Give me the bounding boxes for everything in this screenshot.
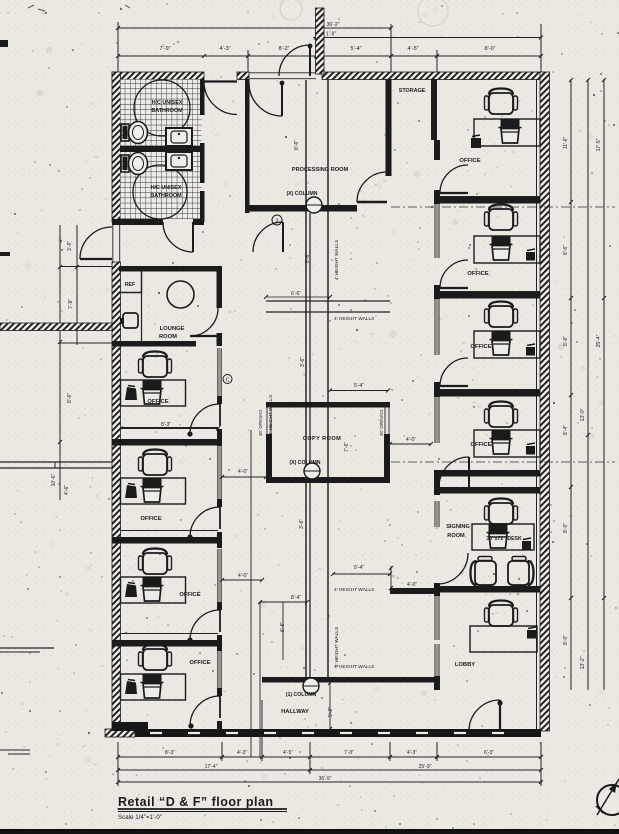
toilet 2 bowl xyxy=(129,153,148,175)
exterior top wall hatched (left of bathroom door) xyxy=(112,72,204,80)
svg-text:8’-6”: 8’-6” xyxy=(305,253,311,263)
right wall boundary office2/office3 xyxy=(437,292,540,299)
svg-text:4’-3”: 4’-3” xyxy=(407,750,417,756)
svg-text:7’-9”: 7’-9” xyxy=(159,46,170,52)
svg-text:4’-3”: 4’-3” xyxy=(219,46,230,52)
bathroom right wall upper xyxy=(200,79,205,115)
svg-text:8’-0”: 8’-0” xyxy=(484,46,495,52)
lounge sink xyxy=(123,313,138,328)
right-column left wall frame y204 xyxy=(435,204,439,258)
hallway dim line vertical x330 xyxy=(329,683,331,729)
right office4 desk computer xyxy=(492,430,511,438)
right office4 desk xyxy=(474,430,540,457)
right office1 chair xyxy=(485,89,518,115)
right office3 desk computer xyxy=(492,331,511,339)
right office3 desk xyxy=(474,331,540,358)
storage wall hatch stub xyxy=(434,140,440,153)
svg-text:OFFICE: OFFICE xyxy=(140,516,161,522)
vestibule right wall (shared with processing) xyxy=(245,79,250,97)
office4 chair xyxy=(139,645,172,671)
svg-text:BATHROOM: BATHROOM xyxy=(150,193,182,199)
signing room door leaf xyxy=(468,457,470,487)
svg-text:5’-4”: 5’-4” xyxy=(354,383,364,389)
svg-text:OFFICE: OFFICE xyxy=(189,660,210,666)
svg-text:ROOM: ROOM xyxy=(159,334,177,340)
right wall thin face line office2/office3 xyxy=(437,291,540,293)
signing room desk phone xyxy=(522,541,531,550)
scan smudge circle top xyxy=(280,0,302,20)
north exterior door arc xyxy=(279,45,310,76)
right office3 door arc xyxy=(440,358,468,386)
svg-text:LOBBY: LOBBY xyxy=(455,662,475,668)
neighbour wall tick marks bottom left xyxy=(0,749,30,751)
dim extension x437 xyxy=(436,50,438,79)
right office3 chair xyxy=(485,302,518,328)
lobby desk phone xyxy=(527,630,536,639)
left-column right wall block y635 xyxy=(217,635,222,651)
office4 door leaf xyxy=(219,696,221,718)
right dim line x588 xyxy=(587,79,589,690)
dim extension x248 xyxy=(247,50,249,72)
lounge bottom wall xyxy=(112,341,196,347)
svg-text:6’-6”: 6’-6” xyxy=(291,291,301,297)
right dim line x604 xyxy=(603,79,605,690)
svg-text:Scale 1/4”=1’-0”: Scale 1/4”=1’-0” xyxy=(118,814,162,821)
exterior right wall hatched xyxy=(540,72,550,731)
right office2 door leaf xyxy=(440,287,468,289)
copy room top wall xyxy=(266,402,390,408)
office2 desk phone xyxy=(125,485,137,498)
svg-text:25’-9”: 25’-9” xyxy=(419,764,432,770)
svg-text:8’-4”: 8’-4” xyxy=(563,425,569,435)
bottom dim tier1 xyxy=(118,756,541,758)
svg-text:LOUNGE: LOUNGE xyxy=(160,326,185,332)
right office1 desk computer xyxy=(501,119,520,127)
left-column right wall frame y651 xyxy=(218,651,222,688)
office1 desk computer xyxy=(143,380,162,388)
exterior bottom wall hatch left end xyxy=(105,729,135,737)
bottom dim extension x118 xyxy=(117,742,119,786)
right wall boundary office3/office4 xyxy=(437,390,540,397)
svg-text:8’-3”: 8’-3” xyxy=(165,750,175,756)
right-column left wall block y583 xyxy=(434,583,440,596)
lounge round table xyxy=(167,281,194,308)
side entry door arc xyxy=(80,227,112,259)
svg-text:PROCESSING ROOM: PROCESSING ROOM xyxy=(292,167,349,173)
exterior bottom wall xyxy=(105,729,541,737)
corridor vertical dim line x251 xyxy=(250,430,252,757)
north arrow symbol xyxy=(597,785,619,815)
right-column left wall block y152 xyxy=(434,152,440,160)
svg-text:4’ HEIGHT WALLS: 4’ HEIGHT WALLS xyxy=(334,316,374,322)
dim extension x118 xyxy=(117,22,119,72)
office2 door leaf xyxy=(219,507,221,529)
lounge right wall xyxy=(217,266,223,308)
lounge door arc xyxy=(190,308,218,336)
right wall thin face line office1/office2 xyxy=(437,196,540,198)
right office1 desk xyxy=(474,119,540,146)
edge mark left top xyxy=(0,40,8,47)
bottom dim extension x390 xyxy=(389,742,391,761)
exterior left wall hatched (bathroom block) xyxy=(112,72,121,222)
left-column right wall block y602 xyxy=(217,602,222,610)
signing room desk xyxy=(472,524,534,550)
left dim line x77 xyxy=(76,225,78,345)
bottom dim extension x437 xyxy=(436,742,438,761)
signing room lower door arc xyxy=(437,553,468,584)
office1 door hinge blob xyxy=(187,431,192,436)
bathroom vestibule bottom wall stub xyxy=(193,219,204,225)
svg-text:C: C xyxy=(226,378,230,384)
svg-text:4’-6”: 4’-6” xyxy=(64,485,70,495)
bathroom right wall lower xyxy=(200,191,205,222)
lounge room label xyxy=(159,326,185,340)
svg-text:4’ HEIGHT WALLS: 4’ HEIGHT WALLS xyxy=(334,664,374,670)
svg-text:8’-6”: 8’-6” xyxy=(563,523,569,533)
lobby chair xyxy=(485,601,518,627)
processing room door leaf xyxy=(357,201,387,203)
svg-text:ROOM: ROOM xyxy=(447,533,465,539)
exterior bottom wall white notches xyxy=(150,732,162,734)
svg-text:HALLWAY: HALLWAY xyxy=(281,709,309,715)
svg-text:36” OPENING: 36” OPENING xyxy=(379,409,384,436)
exterior top wall jamb lines over entry opening xyxy=(249,72,316,74)
bathroom right wall mid xyxy=(200,143,205,183)
wall segment signing approach xyxy=(390,588,437,594)
svg-text:5’-4”: 5’-4” xyxy=(354,565,364,571)
svg-text:4’-3”: 4’-3” xyxy=(237,750,247,756)
right-column left wall frame y644 xyxy=(435,644,439,676)
stray pencil marks top-left corner xyxy=(28,5,130,11)
lounge door jamb stub xyxy=(217,333,223,346)
left-column right wall frame y549 xyxy=(218,549,222,602)
refrigerator closet walls xyxy=(141,271,143,293)
svg-text:OFFICE: OFFICE xyxy=(467,271,488,277)
top dim line B 1'-9" xyxy=(313,37,541,39)
svg-text:COPY ROOM: COPY ROOM xyxy=(303,436,341,442)
svg-text:3’-6”: 3’-6” xyxy=(67,241,73,251)
svg-text:13’-2”: 13’-2” xyxy=(580,656,586,669)
svg-text:OFFICE: OFFICE xyxy=(179,592,200,598)
copy room bottom wall xyxy=(266,477,390,483)
svg-text:REF: REF xyxy=(125,282,135,288)
north exterior door leaf (swings out) xyxy=(309,45,311,76)
sink 1 xyxy=(166,128,192,146)
office1 door arc xyxy=(190,404,220,434)
circled letter C symbol xyxy=(223,375,232,384)
right-column inner wall face line xyxy=(536,79,538,729)
signing room chair xyxy=(485,499,518,525)
office2 desk computer xyxy=(143,478,162,486)
right office3 door leaf xyxy=(440,385,468,387)
svg-text:8’-0”: 8’-0” xyxy=(563,635,569,645)
svg-text:25’-4”: 25’-4” xyxy=(596,334,602,347)
office3 desk computer xyxy=(143,577,162,585)
office3 desk phone xyxy=(125,584,137,597)
svg-text:(1) COLUMN: (1) COLUMN xyxy=(286,692,317,698)
title underline double xyxy=(118,808,287,810)
left-column right wall block y429 xyxy=(217,429,222,446)
svg-text:OFFICE: OFFICE xyxy=(470,344,491,350)
toilet 1 tank xyxy=(121,124,129,141)
bathroom 1 tiled floor xyxy=(121,80,202,147)
signing room door arc xyxy=(439,457,469,487)
toilet 2 tank xyxy=(121,155,129,172)
left extension line lounge bottom xyxy=(60,342,112,344)
svg-text:3’-6”: 3’-6” xyxy=(299,519,305,529)
sink 2 xyxy=(166,152,192,170)
corridor vertical dim line x260 xyxy=(259,602,261,757)
left dim line x60 xyxy=(59,225,61,500)
exterior top wall hatched (right portion) xyxy=(322,72,541,80)
svg-text:4’-5”: 4’-5” xyxy=(407,46,418,52)
bottom dim tier2 xyxy=(118,769,541,771)
office2 desk xyxy=(121,478,186,504)
bathroom 1 label xyxy=(151,100,183,114)
svg-text:5’-4”: 5’-4” xyxy=(350,46,361,52)
spine wall line x306 xyxy=(305,80,307,677)
svg-text:8’-2”: 8’-2” xyxy=(278,46,289,52)
right wall boundary office1/office2 xyxy=(437,197,540,204)
svg-text:17’-5”: 17’-5” xyxy=(596,138,602,151)
svg-text:8’-6”: 8’-6” xyxy=(563,245,569,255)
office3 desk xyxy=(121,577,186,603)
lobby bottom door leaf xyxy=(499,700,501,731)
spine wall line x310 xyxy=(309,213,311,677)
svg-text:H/C UNISEX: H/C UNISEX xyxy=(151,185,182,191)
svg-text:4’ HEIGHT WALLS: 4’ HEIGHT WALLS xyxy=(334,627,340,667)
office3 door arc xyxy=(190,610,220,640)
centerline dash-dot y466 xyxy=(391,461,615,463)
right office3 desk phone xyxy=(526,347,535,356)
left-column right wall frame y348 xyxy=(218,348,222,396)
circled number 2 symbol xyxy=(272,215,282,225)
office1 desk xyxy=(121,380,186,406)
office1 chair xyxy=(139,352,172,378)
neighbour wall lines left xyxy=(0,461,112,463)
svg-text:8’-4”: 8’-4” xyxy=(291,595,301,601)
right wall boundary signing top xyxy=(437,487,540,494)
copy room left wall xyxy=(266,434,272,483)
office4 desk computer xyxy=(143,674,162,682)
bottom dim extension x262 xyxy=(261,700,263,761)
right wall boundary office4 bottom xyxy=(437,470,540,477)
svg-text:2: 2 xyxy=(275,219,278,225)
right office2 desk xyxy=(474,236,540,263)
svg-text:13’-0”: 13’-0” xyxy=(580,408,586,421)
svg-text:7’-6”: 7’-6” xyxy=(344,442,350,452)
left extension line lounge top xyxy=(60,266,112,268)
bathroom divider wall xyxy=(120,146,204,152)
exterior left wall hatched (lower) xyxy=(112,262,121,731)
copy room column circle xyxy=(304,463,320,479)
copy room left jamb lines xyxy=(266,407,268,434)
svg-text:BATHROOM: BATHROOM xyxy=(151,108,183,114)
right-column left wall frame y397 xyxy=(435,397,439,443)
toilet 1 bowl xyxy=(129,122,148,144)
processing room entry door arc xyxy=(249,83,282,116)
svg-text:10’-6”: 10’-6” xyxy=(51,473,57,486)
left-column right wall frame y446 xyxy=(218,446,222,499)
svg-text:Retail “D & F” floor plan: Retail “D & F” floor plan xyxy=(118,795,274,809)
svg-text:4’ HEIGHT WALLS: 4’ HEIGHT WALLS xyxy=(334,240,340,280)
office2 chair xyxy=(139,450,172,476)
wall boundary office2/office3 xyxy=(112,537,218,544)
svg-text:OFFICE: OFFICE xyxy=(459,158,480,164)
lobby bottom door arc xyxy=(469,700,500,731)
right office4 chair xyxy=(485,402,518,428)
bathroom vestibule bottom door arc xyxy=(163,222,193,252)
svg-text:4’ HEIGHT WALLS: 4’ HEIGHT WALLS xyxy=(334,587,374,593)
bathroom vestibule bottom door leaf xyxy=(192,222,194,252)
bottom-left corner wall block xyxy=(112,722,148,731)
copy room right jamb lines xyxy=(384,407,386,434)
signing guest chair 1 xyxy=(471,557,497,590)
svg-text:36’-2”: 36’-2” xyxy=(327,22,340,28)
bottom black scan band xyxy=(0,829,619,834)
office4 door arc xyxy=(190,696,220,726)
lounge door leaf xyxy=(190,335,222,337)
dim extension x391 xyxy=(390,24,392,72)
svg-text:STORAGE: STORAGE xyxy=(399,88,426,94)
svg-text:17’-4”: 17’-4” xyxy=(205,764,218,770)
bathroom vestibule entry door arc xyxy=(204,82,237,115)
storage right wall xyxy=(431,79,437,140)
svg-text:H/C UNISEX: H/C UNISEX xyxy=(152,100,183,106)
office4 desk phone xyxy=(125,681,137,694)
svg-text:4’-0”: 4’-0” xyxy=(238,469,248,475)
office1 desk phone xyxy=(125,387,137,400)
svg-text:OFFICE: OFFICE xyxy=(470,442,491,448)
corridor north door leaf xyxy=(282,222,284,252)
svg-text:4’-5”: 4’-5” xyxy=(283,750,293,756)
office2 door arc xyxy=(190,507,220,537)
right-column left wall block y676 xyxy=(434,676,440,690)
right wall thin face line office3/office4 xyxy=(437,389,540,391)
bathroom vestibule entry door leaf xyxy=(204,80,237,82)
copy room right wall xyxy=(384,434,390,483)
lounge top wall xyxy=(119,266,222,272)
svg-text:4’-0”: 4’-0” xyxy=(406,437,416,443)
svg-text:4’-0”: 4’-0” xyxy=(407,582,417,588)
left-column right wall block y721 xyxy=(217,721,222,731)
centerline dash-dot y207 xyxy=(391,206,615,208)
left-column right wall block y688 xyxy=(217,688,222,696)
cross wall lower line xyxy=(266,311,390,313)
edge mark left mid xyxy=(0,252,10,256)
right office1 door arc xyxy=(440,165,468,193)
svg-text:3’-6”: 3’-6” xyxy=(300,357,306,367)
office3 chair xyxy=(139,549,172,575)
processing room door arc xyxy=(357,172,387,202)
right office2 desk phone xyxy=(526,252,535,261)
right office1 door leaf xyxy=(440,192,468,194)
office4 desk xyxy=(121,674,186,700)
right office2 door arc xyxy=(440,260,468,288)
hallway top wall xyxy=(262,677,437,683)
right dim line x571 xyxy=(570,79,572,690)
hallway column circle xyxy=(303,678,319,694)
signing room label xyxy=(446,524,470,539)
office1 door leaf xyxy=(219,404,221,426)
office2 door hinge blob xyxy=(187,534,192,539)
office3 door leaf xyxy=(219,610,221,632)
signing room desk computer xyxy=(489,524,508,532)
svg-text:7’-0”: 7’-0” xyxy=(344,750,354,756)
bathroom 2 label xyxy=(150,185,182,199)
thin wall face line above office1/office2 xyxy=(121,427,218,429)
spine wall line x328 xyxy=(327,80,329,677)
svg-text:6’-3”: 6’-3” xyxy=(484,750,494,756)
right wall boundary signing/lobby xyxy=(437,586,540,593)
svg-text:36” OPENING: 36” OPENING xyxy=(258,409,263,436)
side entry door leaf xyxy=(80,258,112,260)
lounge counter line xyxy=(141,293,143,341)
office4 door hinge blob xyxy=(188,723,193,728)
svg-text:1’-9”: 1’-9” xyxy=(326,32,336,38)
bathroom 2 turning circle xyxy=(133,165,187,219)
processing room bottom wall xyxy=(245,205,357,212)
bathroom block bottom wall xyxy=(112,219,163,225)
right office2 chair xyxy=(485,205,518,231)
wall boundary office1/office2 xyxy=(112,439,218,446)
svg-text:36’-9”: 36’-9” xyxy=(319,776,332,782)
exterior top wall hatched (between doors) xyxy=(237,72,249,80)
svg-text:(X) COLUMN: (X) COLUMN xyxy=(286,191,317,197)
svg-text:5’-2”: 5’-2” xyxy=(328,707,334,717)
signing guest chair 2 xyxy=(508,557,534,590)
neighbour demising wall stub left (hatched) xyxy=(0,323,112,331)
exterior left wall jamb lines at side door xyxy=(112,222,114,262)
right office2 desk computer xyxy=(492,236,511,244)
processing room entry door leaf xyxy=(281,83,283,116)
right office4 desk phone xyxy=(526,446,535,455)
left-column right wall block y499 xyxy=(217,499,222,507)
thin wall face line above office3/office4 xyxy=(121,633,218,635)
right-column left wall block y470 xyxy=(434,470,440,495)
right-column left wall block y382 xyxy=(434,382,440,397)
bathroom 1 turning circle xyxy=(134,80,190,136)
processing room right wall xyxy=(386,79,392,176)
svg-text:8’-6”: 8’-6” xyxy=(67,393,73,403)
lobby desk xyxy=(470,626,537,652)
top dim line C xyxy=(118,55,541,57)
processing column circle xyxy=(306,197,322,213)
signing approach dim line x391 xyxy=(390,566,392,588)
bathroom 2 tiled floor xyxy=(121,152,202,219)
processing room left wall xyxy=(245,97,250,213)
svg-text:4’-0”: 4’-0” xyxy=(238,573,248,579)
bottom dim extension x541 xyxy=(540,742,542,786)
right dim ticks top xyxy=(569,78,573,82)
svg-text:8’-6”: 8’-6” xyxy=(294,140,300,150)
svg-text:7’-9”: 7’-9” xyxy=(68,299,74,309)
top dim line A 36'-2" xyxy=(118,27,391,29)
right-column left wall block y190 xyxy=(434,190,440,204)
right office1 desk phone xyxy=(471,138,481,148)
svg-text:8’-6”: 8’-6” xyxy=(563,336,569,346)
bottom dim tier3 xyxy=(118,781,541,783)
cross wall upper line xyxy=(266,300,390,302)
thin wall face line above office2/office3 xyxy=(121,530,218,532)
wall boundary office3/office4 xyxy=(112,640,218,647)
svg-text:8’-3”: 8’-3” xyxy=(161,422,171,428)
left-column right wall block y396 xyxy=(217,396,222,404)
bottom dim extension x310 xyxy=(309,742,311,774)
svg-text:11’-6”: 11’-6” xyxy=(563,136,569,149)
left-column right wall block y532 xyxy=(217,532,222,548)
right-column left wall frame y299 xyxy=(435,299,439,355)
